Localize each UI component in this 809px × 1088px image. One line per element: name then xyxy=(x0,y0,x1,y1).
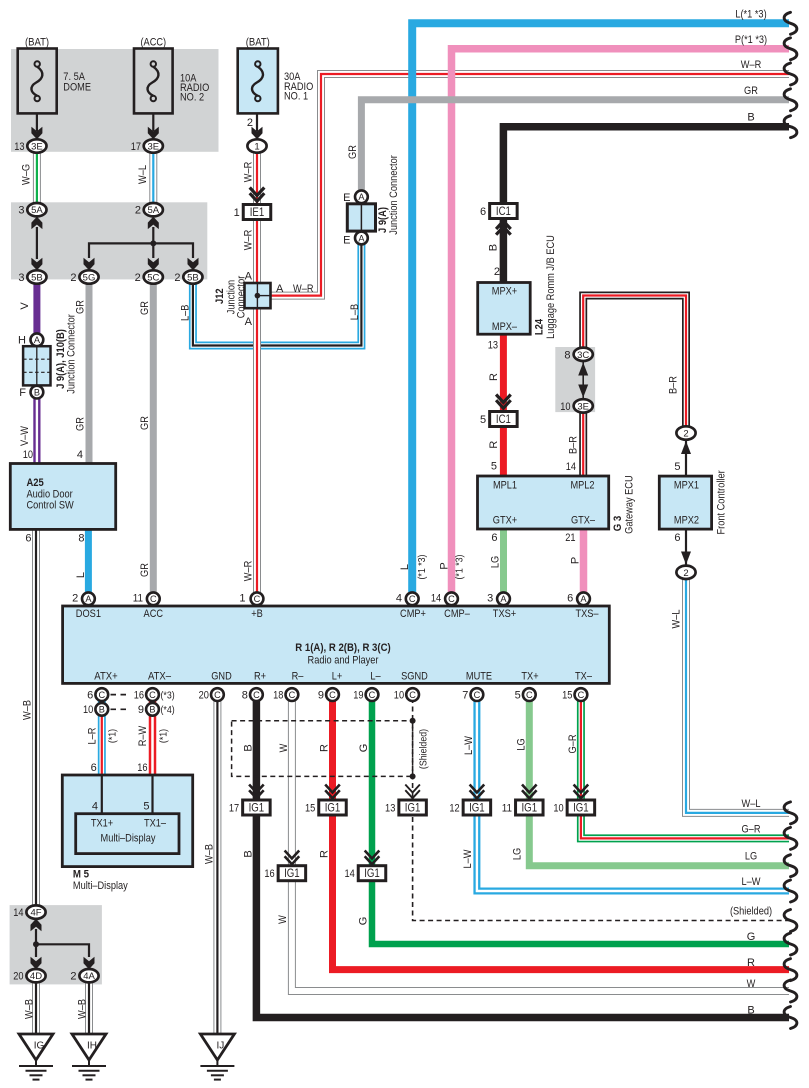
svg-text:20: 20 xyxy=(13,971,23,983)
svg-text:TX1–: TX1– xyxy=(144,818,167,830)
wire W-R IE1 to J12 xyxy=(253,219,261,283)
wire L (blue) to right edge xyxy=(412,23,789,592)
label J 9(A) Junction Connector xyxy=(377,155,400,235)
svg-text:A: A xyxy=(580,594,587,604)
svg-text:15: 15 xyxy=(562,689,572,701)
svg-text:W–R: W–R xyxy=(293,283,314,295)
svg-text:(*1): (*1) xyxy=(106,729,118,743)
svg-text:(*1 *3): (*1 *3) xyxy=(416,555,428,580)
svg-text:R: R xyxy=(747,957,755,969)
connector IG1 pin 11 with chevron xyxy=(502,785,543,816)
link MPX2 to circle 2 with arrow xyxy=(681,529,691,564)
svg-text:CMP–: CMP– xyxy=(444,608,470,620)
wire R IC1 to MPL1 xyxy=(500,426,507,475)
labels around J12 xyxy=(245,271,314,329)
labels B on R+ drop xyxy=(243,744,255,857)
svg-text:R 1(A), R 2(B), R 3(C): R 1(A), R 2(B), R 3(C) xyxy=(295,642,391,654)
svg-text:TXS+: TXS+ xyxy=(493,608,516,620)
radio pin L+ 9(C) xyxy=(318,688,339,701)
label L24 Luggage Romm J/B ECU xyxy=(533,235,557,339)
svg-text:10: 10 xyxy=(23,449,33,461)
connector IG1 pin 13 with chevron xyxy=(385,785,426,816)
wire P GTX- to TXS- xyxy=(580,529,588,592)
labels R-W (*1) xyxy=(137,725,169,746)
svg-text:C: C xyxy=(150,594,157,604)
svg-text:L24: L24 xyxy=(533,318,545,335)
svg-text:L: L xyxy=(75,572,87,578)
svg-text:GTX–: GTX– xyxy=(571,514,596,526)
label B-R on MPL2 riser xyxy=(567,436,579,454)
svg-text:8: 8 xyxy=(564,349,570,361)
svg-text:3: 3 xyxy=(487,593,493,605)
svg-text:6: 6 xyxy=(480,206,486,218)
svg-text:ATX+: ATX+ xyxy=(94,671,117,683)
labels R on L+ drop xyxy=(319,744,331,858)
svg-text:W–R: W–R xyxy=(741,59,762,71)
svg-text:LG: LG xyxy=(745,851,757,863)
svg-text:(BAT): (BAT) xyxy=(246,37,270,49)
break symbol and label, wire W-L xyxy=(742,798,797,824)
connector 4D pin 20 xyxy=(13,969,45,983)
svg-text:W–G: W–G xyxy=(20,164,32,185)
svg-text:Control SW: Control SW xyxy=(27,500,75,512)
label GR on J9(A) riser xyxy=(347,145,359,159)
svg-text:W–L: W–L xyxy=(671,610,683,629)
wire B-R 3E to MPL2 xyxy=(579,413,587,475)
svg-text:R–: R– xyxy=(292,671,305,683)
svg-text:IE1: IE1 xyxy=(250,207,265,219)
svg-text:G–R: G–R xyxy=(567,734,579,753)
wire B R+ to right edge xyxy=(256,698,789,1018)
svg-text:H: H xyxy=(18,335,26,347)
connector IG1 pin 15 with chevron xyxy=(305,785,346,816)
svg-text:3E: 3E xyxy=(147,142,159,153)
svg-text:L–R: L–R xyxy=(86,728,98,745)
connector 5A pin 2 xyxy=(135,203,163,217)
junction connector J12 xyxy=(245,283,271,308)
svg-text:Radio and Player: Radio and Player xyxy=(308,655,379,667)
svg-text:(*3): (*3) xyxy=(161,689,175,701)
svg-text:16: 16 xyxy=(137,762,147,774)
svg-text:GR: GR xyxy=(75,300,87,314)
label M 5 Multi-Display xyxy=(73,869,128,892)
svg-text:A: A xyxy=(276,283,284,295)
fuse 7.5A DOME xyxy=(18,37,91,114)
wire GR (gray) to right edge xyxy=(361,100,789,191)
svg-text:2: 2 xyxy=(494,266,500,278)
svg-text:19: 19 xyxy=(353,689,363,701)
label (Shielded) vertical xyxy=(417,729,429,769)
svg-text:+B: +B xyxy=(251,608,263,620)
label B-R on front controller feed xyxy=(667,376,679,394)
svg-text:TX–: TX– xyxy=(575,671,593,683)
wire LG GTX+ to TXS+ xyxy=(500,529,507,592)
shading panel behind 5A/5B/5G/5C junction block xyxy=(11,202,207,279)
svg-text:G: G xyxy=(358,744,370,753)
break symbol and label, shield xyxy=(730,906,797,932)
wire GR 5G to A25 xyxy=(86,284,93,464)
label J 9(A), J10(B) Junction Connector xyxy=(55,314,78,394)
pin 5 of MPL1 xyxy=(491,461,497,473)
svg-text:IG1: IG1 xyxy=(325,803,341,815)
wire W-B 4A to ground IH xyxy=(85,982,93,1034)
M5 Multi-Display box xyxy=(62,775,192,867)
connector 3E pin 13 xyxy=(14,139,46,153)
svg-text:IH: IH xyxy=(87,1041,97,1052)
svg-text:6: 6 xyxy=(91,762,97,774)
break symbol and label, wire W xyxy=(747,978,797,1002)
svg-text:V: V xyxy=(19,302,31,310)
connector IC1 pin 6 with chevron xyxy=(480,204,517,235)
wire B IC1 to L24 MPX+ xyxy=(500,218,508,283)
link circle 2 to MPX1 with arrow xyxy=(681,441,691,475)
svg-text:1: 1 xyxy=(234,207,240,219)
pin 16 into M5 xyxy=(137,762,147,774)
fuse 30A RADIO NO.1 xyxy=(238,37,314,114)
wire W-G xyxy=(33,153,41,203)
svg-text:B: B xyxy=(34,387,40,397)
label R above IC1 xyxy=(488,373,500,381)
wire L-B 5B to J9(A) xyxy=(193,245,362,346)
svg-text:10: 10 xyxy=(560,401,570,413)
circle 2 upper (front controller) xyxy=(676,426,695,439)
svg-text:R: R xyxy=(488,441,500,449)
svg-text:R–W: R–W xyxy=(137,725,149,746)
svg-text:C: C xyxy=(409,690,416,700)
pin 6 of MPX2 xyxy=(674,532,680,544)
svg-text:W–R: W–R xyxy=(242,162,254,183)
connector 4F pin 14 xyxy=(13,905,45,919)
label L-B right xyxy=(349,304,361,320)
label L (A25 to DOS1) xyxy=(75,572,87,578)
svg-text:2: 2 xyxy=(70,971,76,983)
svg-text:B: B xyxy=(149,705,155,715)
svg-text:L: L xyxy=(399,564,411,570)
svg-text:MUTE: MUTE xyxy=(466,671,492,683)
label R below IC1 xyxy=(488,441,500,449)
connector 5A pin 3 xyxy=(18,203,46,217)
circle 2 lower (front controller) xyxy=(676,566,695,579)
svg-text:10: 10 xyxy=(83,704,93,716)
wire B (black) to right edge xyxy=(503,127,789,204)
svg-text:B: B xyxy=(99,705,105,715)
wire P (pink) to right edge xyxy=(452,49,790,592)
svg-text:4: 4 xyxy=(77,449,83,461)
connector 5B pin 3 xyxy=(18,270,46,284)
wire W-B 4D to ground IG xyxy=(32,982,40,1034)
svg-text:3: 3 xyxy=(18,205,24,217)
connector 3E pin 10 xyxy=(560,399,593,413)
radio pin SGND 10(C) xyxy=(394,688,419,701)
connector 5B pin 2 xyxy=(174,270,202,284)
break symbol and label, wire G-R xyxy=(742,823,797,849)
svg-text:12: 12 xyxy=(449,803,459,815)
label W-B on GND drop xyxy=(204,844,216,864)
svg-text:11: 11 xyxy=(133,593,143,605)
labels L-R (*1) xyxy=(86,728,118,745)
svg-text:DOS1: DOS1 xyxy=(76,608,101,620)
svg-text:MPX–: MPX– xyxy=(492,321,518,333)
svg-text:5B: 5B xyxy=(187,273,199,284)
ground IG xyxy=(19,1034,53,1080)
svg-text:L–W: L–W xyxy=(462,849,474,869)
svg-text:B–R: B–R xyxy=(567,436,579,454)
svg-text:A: A xyxy=(85,594,92,604)
svg-text:6: 6 xyxy=(491,532,497,544)
svg-text:8: 8 xyxy=(78,532,84,544)
svg-text:GR: GR xyxy=(139,301,151,315)
connector 4A pin 2 xyxy=(70,969,98,983)
break symbol and label, wire L-W xyxy=(742,876,797,902)
svg-text:L–W: L–W xyxy=(742,876,762,888)
svg-text:W–B: W–B xyxy=(24,999,36,1019)
break symbol and label, wire B lower xyxy=(747,1005,797,1029)
wire B-R 3C to front controller xyxy=(583,296,686,427)
labels W-B to grounds xyxy=(24,999,89,1019)
svg-text:Front Controller: Front Controller xyxy=(715,470,727,534)
svg-text:R+: R+ xyxy=(254,671,266,683)
svg-text:NO. 1: NO. 1 xyxy=(284,90,308,102)
pin 13 of L24 xyxy=(488,340,498,352)
dashed links ATX+ to ATX- xyxy=(111,695,127,710)
wire V (violet) xyxy=(33,284,40,334)
svg-text:C: C xyxy=(253,690,260,700)
radio pin ATX+ 6(C)/10(B) xyxy=(83,688,108,716)
svg-text:(*4): (*4) xyxy=(161,704,175,716)
svg-text:L–B: L–B xyxy=(179,305,191,321)
shading panel behind DOME / RADIO NO.2 fuses xyxy=(11,49,219,152)
svg-text:21: 21 xyxy=(565,532,575,544)
svg-text:6: 6 xyxy=(674,532,680,544)
svg-text:A: A xyxy=(358,192,365,202)
pin 6 of GTX+ xyxy=(491,532,497,544)
svg-text:Connector: Connector xyxy=(235,275,247,318)
svg-text:17: 17 xyxy=(131,141,141,153)
svg-text:2: 2 xyxy=(70,272,76,284)
label G 3 Gateway ECU xyxy=(612,475,636,534)
radio pin R- 18(C) xyxy=(273,688,298,701)
svg-text:14: 14 xyxy=(344,868,354,880)
svg-text:(BAT): (BAT) xyxy=(25,37,49,49)
link 5A to 5B with arrows xyxy=(31,217,42,271)
svg-text:(*1): (*1) xyxy=(157,729,169,743)
svg-text:G: G xyxy=(747,931,756,943)
wire L-W MUTE to right edge xyxy=(477,698,789,891)
front controller (MPX1/MPX2) xyxy=(659,476,711,529)
svg-text:A: A xyxy=(500,594,507,604)
radio pin TX+ 5(C) xyxy=(515,688,536,701)
connector 5G pin 2 xyxy=(70,270,98,284)
svg-text:G: G xyxy=(357,917,369,926)
pin 6 into M5 xyxy=(91,762,97,774)
radio pin TXS+ 3(A) xyxy=(487,592,510,605)
svg-text:C: C xyxy=(474,690,481,700)
svg-text:P: P xyxy=(569,557,581,564)
radio pin CMP+ 4(C) xyxy=(396,592,419,605)
svg-text:5: 5 xyxy=(491,461,497,473)
svg-text:C: C xyxy=(214,690,221,700)
radio pin DOS1 2(A) xyxy=(72,592,95,605)
link 5A to 5G/5C/5B branch with arrows and junction xyxy=(84,217,199,271)
svg-text:IG1: IG1 xyxy=(405,803,421,815)
wire L-R ATX+ to M5 xyxy=(98,698,106,775)
labels W on R- drop xyxy=(277,743,290,924)
radio pin ATX- 16(C)(*3)/9(B)(*4) xyxy=(134,688,175,716)
svg-text:LG: LG xyxy=(511,848,523,860)
wire R L24 MPX- to IC1 xyxy=(500,334,507,412)
svg-text:C: C xyxy=(369,690,376,700)
radio pin L- 19(C) xyxy=(353,688,378,701)
svg-text:W–R: W–R xyxy=(242,230,254,251)
radio pin ACC 11(C) xyxy=(133,592,160,605)
ground IJ xyxy=(200,1034,234,1080)
break symbol and label, wire P xyxy=(735,34,797,60)
wire W-B A25 to 4F xyxy=(32,529,40,905)
svg-text:MPL2: MPL2 xyxy=(570,480,594,492)
svg-text:LG: LG xyxy=(489,556,501,568)
radio pin TXS- 6(A) xyxy=(567,592,590,605)
break symbol and label, wire L xyxy=(735,8,797,34)
wire GR 5C to ACC xyxy=(150,284,157,592)
wire SGND shield drain (dashed) to right edge xyxy=(413,698,789,921)
svg-text:10: 10 xyxy=(553,803,563,815)
label G-R on TX- drop xyxy=(567,734,579,753)
svg-text:14: 14 xyxy=(566,461,576,473)
labels L-W on MUTE drop xyxy=(462,735,475,868)
svg-text:3E: 3E xyxy=(577,401,589,412)
svg-text:9: 9 xyxy=(138,704,144,716)
wire W R- to right edge xyxy=(292,698,789,991)
connector 3E pin 17 xyxy=(131,139,163,153)
svg-text:2: 2 xyxy=(135,205,141,217)
svg-text:Junction Connector: Junction Connector xyxy=(66,314,78,394)
svg-text:GR: GR xyxy=(347,145,359,159)
label GR on 5G riser xyxy=(75,300,87,431)
shading panel behind 3C/3E connectors xyxy=(555,347,595,412)
svg-text:8: 8 xyxy=(242,689,248,701)
svg-text:A25: A25 xyxy=(27,477,44,489)
svg-text:GR: GR xyxy=(139,563,151,577)
svg-text:E: E xyxy=(343,235,350,247)
svg-text:5C: 5C xyxy=(147,273,159,284)
svg-text:C: C xyxy=(289,690,296,700)
wire W-L front controller to right edge xyxy=(686,579,789,813)
svg-text:6: 6 xyxy=(25,532,31,544)
svg-text:4F: 4F xyxy=(30,908,41,919)
svg-text:MPX1: MPX1 xyxy=(674,480,699,492)
svg-text:C: C xyxy=(526,690,533,700)
pin 21 of GTX- xyxy=(565,532,575,544)
svg-text:W–L: W–L xyxy=(137,165,149,184)
svg-text:B: B xyxy=(488,244,500,251)
ground IH xyxy=(72,1034,106,1080)
svg-text:C: C xyxy=(409,594,416,604)
svg-text:15: 15 xyxy=(305,803,315,815)
label V xyxy=(19,302,31,310)
svg-text:MPX2: MPX2 xyxy=(674,514,699,526)
svg-text:SGND: SGND xyxy=(401,671,428,683)
svg-text:MPX+: MPX+ xyxy=(492,285,517,297)
svg-text:4: 4 xyxy=(396,593,402,605)
svg-text:IG1: IG1 xyxy=(284,868,300,880)
svg-text:5: 5 xyxy=(674,461,680,473)
svg-text:L(*1 *3): L(*1 *3) xyxy=(735,8,766,20)
svg-text:B: B xyxy=(747,1005,754,1017)
svg-text:R: R xyxy=(488,373,500,381)
svg-text:C: C xyxy=(149,690,156,700)
svg-text:3C: 3C xyxy=(577,350,589,361)
svg-text:P: P xyxy=(438,562,450,569)
label J12 Junction Connector xyxy=(214,275,248,318)
pin 2 of L24 xyxy=(494,266,500,278)
connector IG1 pin 10 with chevron xyxy=(553,785,594,816)
svg-text:LG: LG xyxy=(515,738,527,750)
wire G-R TX- to right edge xyxy=(581,698,789,838)
break symbol and label, wire LG xyxy=(745,851,797,877)
wire R-W ATX- to M5 xyxy=(149,698,157,775)
svg-text:MPL1: MPL1 xyxy=(493,480,517,492)
svg-text:Multi–Display: Multi–Display xyxy=(73,880,128,892)
connector IG1 pin 16 with chevron xyxy=(264,851,305,881)
svg-text:E: E xyxy=(343,192,350,204)
svg-text:2: 2 xyxy=(683,429,688,440)
svg-text:5A: 5A xyxy=(31,205,43,216)
wire L A25 to DOS1 xyxy=(85,529,92,592)
radio pin MUTE 7(C) xyxy=(462,688,483,701)
radio pin TX- 15(C) xyxy=(562,688,587,701)
svg-text:NO. 2: NO. 2 xyxy=(180,92,204,104)
connector IG1 pin 14 with chevron xyxy=(344,851,385,881)
svg-text:5: 5 xyxy=(143,801,149,813)
svg-text:14: 14 xyxy=(431,593,441,605)
radio pin +B 1(C) xyxy=(239,592,263,605)
svg-text:GR: GR xyxy=(75,417,87,431)
svg-text:14: 14 xyxy=(13,907,23,919)
svg-text:11: 11 xyxy=(502,803,512,815)
label LG (GTX+ riser) xyxy=(489,556,501,568)
svg-text:GR: GR xyxy=(139,416,151,430)
connector IE1 pin 1 with chevron xyxy=(234,188,271,220)
svg-text:P(*1 *3): P(*1 *3) xyxy=(735,34,767,46)
svg-text:C: C xyxy=(329,690,336,700)
connector IG1 pin 17 with chevron xyxy=(229,785,270,816)
wire W-L xyxy=(149,153,157,203)
labels LG on TX+ drop xyxy=(511,738,527,860)
svg-text:W–B: W–B xyxy=(204,844,216,864)
wire W-R branch to right edge xyxy=(271,74,790,296)
svg-text:W: W xyxy=(747,978,756,990)
wire G L- to right edge xyxy=(372,698,789,944)
pin 5 of MPX1 xyxy=(674,461,680,473)
svg-text:IJ: IJ xyxy=(217,1041,225,1052)
svg-text:GND: GND xyxy=(211,671,232,683)
svg-text:IG1: IG1 xyxy=(364,868,380,880)
svg-text:C: C xyxy=(448,594,455,604)
svg-text:M 5: M 5 xyxy=(73,869,89,881)
svg-text:13: 13 xyxy=(14,141,24,153)
svg-text:ATX–: ATX– xyxy=(148,671,172,683)
label L-B left xyxy=(179,305,191,321)
wire V-W xyxy=(33,399,40,464)
svg-text:2: 2 xyxy=(683,568,688,579)
svg-text:R: R xyxy=(319,744,331,752)
radio pin CMP- 14(C) xyxy=(431,592,458,605)
svg-text:GTX+: GTX+ xyxy=(493,514,517,526)
svg-text:(Shielded): (Shielded) xyxy=(417,729,429,769)
svg-text:5A: 5A xyxy=(147,205,159,216)
svg-text:2: 2 xyxy=(135,272,141,284)
svg-text:W–R: W–R xyxy=(242,561,254,582)
